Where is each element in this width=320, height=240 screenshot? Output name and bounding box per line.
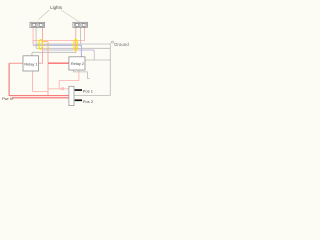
wire: lamp1 grey down — [35, 27, 37, 48]
relay R1 — [23, 56, 39, 71]
wire: grey bus C relay1 top trigger — [32, 52, 77, 56]
wire: grey ground bus A — [36, 43, 110, 45]
power connector box — [69, 86, 74, 105]
relay R2 — [69, 57, 85, 70]
svg-text:Relay 1: Relay 1 — [24, 61, 37, 66]
wire: orange branch from lamp1-right junction — [42, 42, 48, 51]
svg-text:Ground: Ground — [114, 42, 129, 47]
wire: violet from lamp1-right junction to relay2 right pin — [43, 49, 95, 52]
lamp 2 — [73, 22, 88, 27]
wire: relay1 left red pin — [9, 62, 23, 64]
svg-text:Relay 2: Relay 2 — [71, 61, 84, 66]
wire: relay2 left red pin — [48, 62, 69, 64]
svg-text:Pos 1: Pos 1 — [83, 89, 94, 94]
wire: red power line 1 from Pwr In to box — [9, 63, 69, 95]
wire: pink branch to Pos1 — [48, 88, 69, 90]
wire: violet vertical drop to relay2 right pin — [93, 50, 95, 60]
wire: relay2 bottom grey stub — [74, 70, 90, 78]
wire: lamp2 left red down through oval junction — [75, 27, 77, 53]
svg-text:Lights: Lights — [50, 5, 63, 10]
wire: relay2 right pin grey stub — [85, 58, 110, 61]
wire: lamp1 right red down to relay1 right pin — [39, 27, 43, 63]
wire: lamp1 left red continues to blue bus start — [32, 40, 34, 44]
terminal bar Pos 2 — [75, 99, 82, 101]
wire: lamp2 grey down to bus A — [79, 27, 81, 44]
ground: terminal circle — [112, 41, 114, 43]
wire: grey ground bus B — [36, 47, 110, 49]
wire: blue trigger bus to relay2 top — [33, 45, 81, 57]
highlight oval 1 — [39, 40, 43, 50]
wire: relay2 bottom pink output — [59, 70, 79, 89]
wire: red power line 2 — [12, 97, 69, 99]
svg-text:Pos 2: Pos 2 — [83, 99, 94, 104]
lamp 1 — [30, 22, 45, 27]
wire: pink bus lamp1-left to lamp2-right — [33, 27, 85, 40]
svg-text:Pwr In: Pwr In — [2, 96, 13, 101]
leader line to lamp 2 — [61, 10, 80, 22]
terminal bar Pos 1 — [75, 89, 82, 91]
highlight oval 2 — [74, 39, 78, 50]
leader line to lamp 1 — [39, 10, 50, 20]
ground: vertical rail and bottom run to box — [74, 43, 110, 96]
wire: relay1 bottom pink output — [32, 71, 48, 92]
wire: long red feed vertical — [47, 51, 49, 96]
junction circle on pink branch — [62, 88, 64, 90]
